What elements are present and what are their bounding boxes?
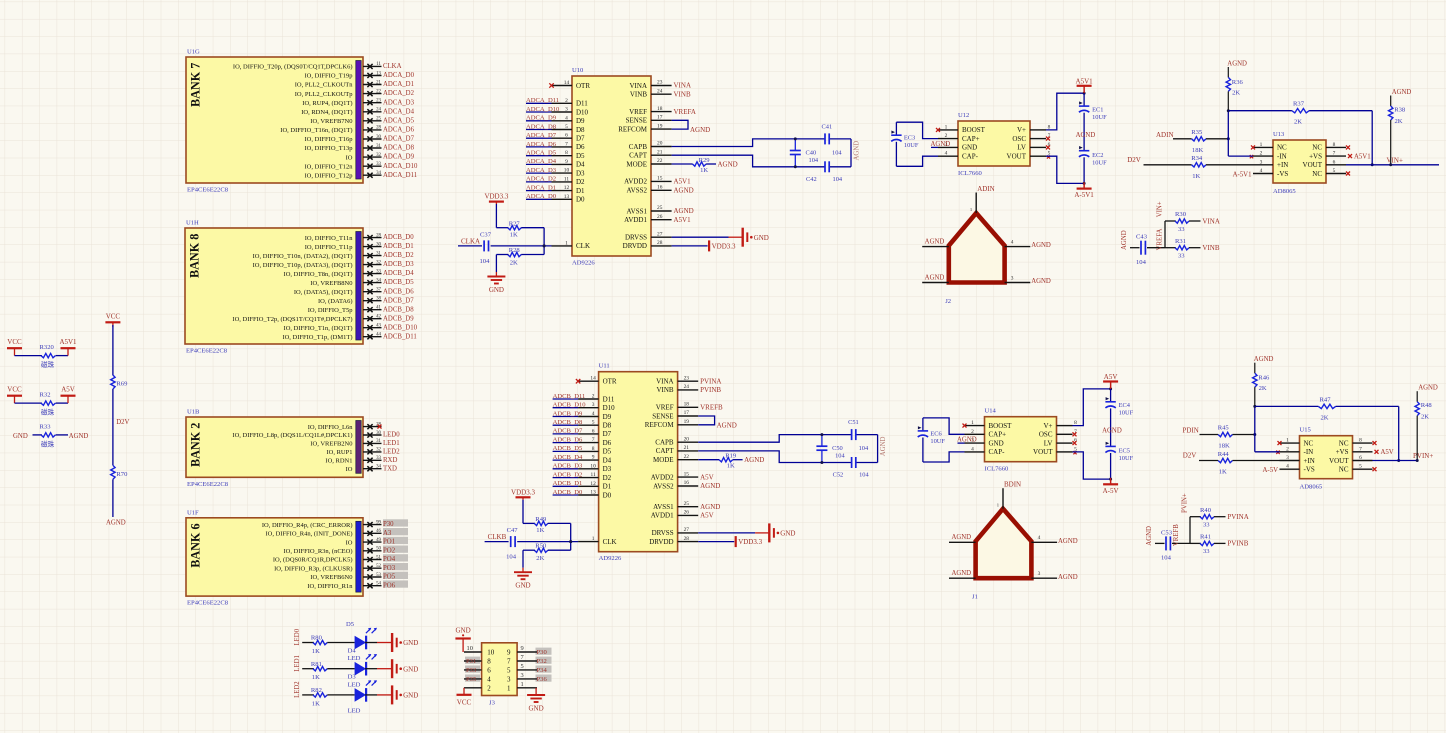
junction output node — [1397, 459, 1400, 462]
svg-text:6: 6 — [1359, 455, 1362, 461]
resistor R31 33 — [1175, 246, 1189, 250]
svg-text:R49: R49 — [535, 516, 547, 523]
svg-text:13: 13 — [564, 194, 570, 200]
svg-text:IO, DIFFIO_T20p, (DQS0T/CQ1T,D: IO, DIFFIO_T20p, (DQS0T/CQ1T,DPCLK6) — [233, 64, 353, 71]
svg-text:P30: P30 — [537, 649, 548, 656]
svg-text:SENSE: SENSE — [652, 412, 673, 420]
svg-text:ADCB_D5: ADCB_D5 — [553, 445, 583, 452]
svg-text:38: 38 — [376, 297, 381, 302]
wire inverting node vertical — [1227, 111, 1229, 156]
svg-text:D9: D9 — [603, 413, 612, 421]
svg-text:P33: P33 — [466, 667, 477, 674]
svg-text:VDD3.3: VDD3.3 — [484, 193, 508, 201]
svg-text:ADCA_D7: ADCA_D7 — [383, 136, 415, 143]
svg-text:13: 13 — [376, 71, 381, 76]
svg-text:ADCB_D2: ADCB_D2 — [383, 252, 414, 259]
svg-text:R29: R29 — [699, 157, 711, 164]
svg-text:1K: 1K — [700, 167, 708, 174]
svg-text:33: 33 — [1178, 253, 1185, 260]
wire bead row right — [56, 402, 68, 404]
svg-text:C51: C51 — [848, 419, 859, 426]
svg-text:ICL7660: ICL7660 — [985, 466, 1010, 473]
wire to R40 — [1190, 516, 1201, 518]
svg-text:CAP+: CAP+ — [962, 135, 980, 143]
svg-text:R320: R320 — [40, 344, 55, 351]
svg-text:33: 33 — [1203, 522, 1210, 529]
wire bead row — [15, 402, 43, 404]
resistor R19 1K on MODE — [719, 458, 733, 462]
svg-text:EP4CE6E22C8: EP4CE6E22C8 — [187, 600, 229, 607]
svg-text:1: 1 — [1260, 142, 1263, 148]
svg-text:1: 1 — [565, 240, 568, 246]
wire net ADCB_D0 — [553, 494, 579, 496]
svg-text:R40: R40 — [1200, 507, 1212, 514]
wire net ADCA_D7 — [526, 137, 552, 139]
svg-text:28: 28 — [376, 233, 381, 238]
svg-text:4: 4 — [1260, 168, 1263, 174]
svg-text:ADCB_D2: ADCB_D2 — [553, 471, 583, 478]
wire to R41 — [1190, 542, 1201, 544]
resistor R80 1K — [313, 640, 327, 644]
wire pulldown to CLK node — [521, 254, 544, 256]
svg-text:OSC: OSC — [1039, 431, 1053, 439]
svg-text:U1G: U1G — [187, 49, 200, 56]
svg-text:+IN: +IN — [1277, 161, 1288, 169]
FPGA bank block BANK 2 (U1B) — [186, 417, 363, 477]
ferrite bead R320 — [41, 353, 55, 357]
svg-text:8: 8 — [487, 658, 491, 666]
svg-text:104: 104 — [859, 445, 869, 452]
svg-text:5: 5 — [521, 663, 524, 670]
wire positive rail to EC caps — [1110, 382, 1112, 389]
svg-text:ADCA_D6: ADCA_D6 — [526, 141, 557, 148]
svg-text:ADCB_D1: ADCB_D1 — [553, 480, 583, 487]
svg-text:-IN: -IN — [1304, 448, 1314, 456]
svg-text:AVDD2: AVDD2 — [624, 178, 647, 186]
svg-text:D2: D2 — [603, 474, 612, 482]
svg-text:5: 5 — [1333, 168, 1336, 174]
svg-text:104: 104 — [859, 472, 869, 479]
wire ADIN input — [1173, 138, 1192, 140]
svg-text:ADCB_D6: ADCB_D6 — [553, 436, 583, 443]
wire feedback left — [1228, 110, 1292, 112]
svg-text:2: 2 — [1260, 151, 1263, 157]
svg-text:ADCB_D4: ADCB_D4 — [553, 454, 583, 461]
svg-text:AGND: AGND — [925, 238, 945, 245]
net label P32 — [536, 657, 552, 664]
J1 left pin 5 — [949, 577, 976, 579]
svg-text:2K: 2K — [510, 259, 518, 266]
svg-text:6: 6 — [592, 428, 595, 434]
svg-text:4: 4 — [1011, 239, 1014, 245]
svg-text:ADCA_D11: ADCA_D11 — [526, 97, 559, 104]
svg-text:EC6: EC6 — [930, 430, 941, 437]
power ground at LED D3 — [391, 685, 393, 704]
resistor R48 2K output divider — [1415, 402, 1419, 416]
svg-text:IO, PLL2_CLKOUTn: IO, PLL2_CLKOUTn — [295, 82, 354, 89]
svg-text:AGND: AGND — [1102, 428, 1122, 435]
wire AGND to output divider resistor — [1416, 391, 1418, 402]
wire clock input — [485, 541, 509, 543]
svg-text:IO, DIFFIO_T19p: IO, DIFFIO_T19p — [304, 73, 352, 80]
svg-text:R34: R34 — [1191, 155, 1203, 162]
svg-text:25: 25 — [657, 205, 663, 211]
wire AGND to R36 — [1227, 67, 1229, 77]
no-ERC marker BOOST — [963, 424, 967, 428]
svg-text:P31: P31 — [466, 658, 476, 665]
polarized capacitor EC6 10UF flying — [922, 418, 924, 431]
FPGA bank block BANK 6 (U1F) — [186, 518, 363, 596]
svg-text:AGND: AGND — [880, 436, 887, 456]
wire pulldown to CLK node — [548, 549, 571, 551]
svg-text:8: 8 — [565, 150, 568, 156]
svg-text:9: 9 — [521, 645, 524, 652]
svg-text:D6: D6 — [603, 439, 612, 447]
svg-text:1: 1 — [971, 420, 974, 426]
svg-text:LED0: LED0 — [294, 628, 301, 645]
FPGA bank block BANK 8 (U1H) — [185, 228, 363, 344]
svg-text:R48: R48 — [1421, 402, 1433, 409]
svg-text:28: 28 — [657, 240, 663, 246]
no-ERC marker OSC — [1046, 137, 1050, 141]
svg-text:3: 3 — [1011, 275, 1014, 281]
wire between EC caps — [1083, 113, 1085, 151]
svg-text:GND: GND — [13, 433, 28, 440]
svg-text:CAPB: CAPB — [629, 143, 648, 151]
svg-text:GND: GND — [780, 530, 795, 538]
svg-text:C50: C50 — [832, 445, 843, 452]
svg-text:3: 3 — [521, 672, 524, 679]
svg-text:D1: D1 — [603, 483, 612, 491]
svg-text:4: 4 — [1286, 464, 1289, 470]
svg-text:U12: U12 — [958, 112, 969, 119]
polarized capacitor EC5 10UF negative — [1105, 445, 1115, 447]
svg-text:EP4CE6E22C8: EP4CE6E22C8 — [187, 481, 229, 488]
svg-text:R46: R46 — [1258, 375, 1270, 382]
svg-text:19: 19 — [684, 419, 690, 425]
svg-text:10UF: 10UF — [1119, 410, 1134, 417]
svg-text:53: 53 — [376, 573, 381, 578]
wire net ADCA_D11 — [526, 102, 552, 104]
svg-text:LED0: LED0 — [383, 432, 400, 439]
svg-text:13: 13 — [590, 490, 596, 496]
svg-text:54: 54 — [376, 582, 381, 587]
svg-text:OTR: OTR — [603, 378, 617, 386]
svg-text:ADCB_D11: ADCB_D11 — [383, 333, 417, 340]
svg-text:31: 31 — [376, 144, 381, 149]
power port A-5V1 negative — [1083, 183, 1085, 188]
svg-text:30: 30 — [376, 242, 381, 247]
svg-text:LED1: LED1 — [294, 655, 301, 672]
net label P34 — [536, 666, 552, 673]
svg-text:42: 42 — [376, 315, 381, 320]
resistor R41 33 — [1200, 541, 1214, 545]
svg-text:V+: V+ — [1017, 126, 1026, 134]
wire VOUT to negative rail — [1046, 156, 1084, 183]
svg-text:1: 1 — [521, 681, 524, 688]
svg-text:4: 4 — [1038, 535, 1041, 541]
svg-text:1: 1 — [945, 124, 948, 130]
J2 top pin 1 — [975, 193, 977, 214]
wire LED to ground — [365, 642, 377, 644]
svg-text:104: 104 — [835, 453, 845, 460]
svg-text:D11: D11 — [576, 100, 588, 108]
no-ERC marker pin2 — [1276, 451, 1279, 454]
power port A5V1 positive — [1077, 85, 1092, 87]
svg-text:AGND: AGND — [1121, 230, 1128, 250]
wire feedback right — [1336, 405, 1399, 407]
wire CAPT to cap network — [698, 451, 822, 463]
net label P33 — [465, 666, 480, 673]
wire MODE resistor to AGND label — [706, 163, 716, 165]
svg-text:4: 4 — [487, 676, 491, 684]
bank BANK 6 pin bar — [356, 521, 361, 592]
svg-text:U1B: U1B — [187, 409, 200, 416]
wire feedback left — [1255, 405, 1319, 407]
svg-text:10: 10 — [590, 463, 596, 469]
polarized capacitor EC4 10UF positive — [1105, 401, 1115, 403]
resistor R50 2K pulldown — [534, 548, 548, 552]
svg-text:BOOST: BOOST — [962, 126, 986, 134]
resistor R47 2K feedback — [1318, 404, 1335, 408]
J2 right pin 3 — [1005, 282, 1031, 284]
svg-text:28: 28 — [376, 126, 381, 131]
svg-text:1K: 1K — [312, 674, 320, 681]
power port VCC at J3 — [457, 694, 472, 696]
svg-text:VOUT: VOUT — [1033, 448, 1053, 456]
svg-text:ADCA_D3: ADCA_D3 — [526, 167, 557, 174]
junction negative rail — [1109, 478, 1112, 481]
svg-text:GND: GND — [403, 692, 418, 700]
svg-text:22: 22 — [684, 454, 690, 460]
svg-text:C52: C52 — [833, 472, 844, 479]
svg-text:D0: D0 — [576, 196, 585, 204]
resistor R46 2K to ground — [1253, 373, 1257, 387]
svg-text:R50: R50 — [535, 543, 547, 550]
svg-text:A-5V1: A-5V1 — [1233, 172, 1252, 179]
wire net ADCA_D4 — [526, 163, 552, 165]
svg-text:27: 27 — [657, 231, 663, 237]
svg-text:R35: R35 — [1191, 129, 1203, 136]
svg-text:2: 2 — [971, 429, 974, 435]
wire bead row right — [56, 355, 68, 357]
svg-text:VREF: VREF — [656, 404, 674, 412]
capacitor C37 104 series clock — [483, 240, 485, 251]
wire VOUT to VIN+ — [1346, 164, 1439, 166]
svg-text:EC5: EC5 — [1119, 448, 1130, 455]
svg-text:ADCB_D4: ADCB_D4 — [383, 270, 414, 277]
svg-text:IO, DIFFIO_L8p, (DQS1L/CQ1L#,D: IO, DIFFIO_L8p, (DQS1L/CQ1L#,DPCLK1) — [232, 432, 352, 439]
svg-text:51: 51 — [376, 555, 381, 560]
wire D2V — [1144, 164, 1192, 166]
svg-text:NC: NC — [1312, 170, 1322, 178]
wire net ADCB_D11 — [553, 398, 579, 400]
wire net ADCB_D8 — [553, 424, 579, 426]
svg-text:18: 18 — [684, 402, 690, 408]
svg-text:AGND: AGND — [1058, 574, 1078, 581]
wire PDIN input — [1200, 434, 1219, 436]
svg-text:BDIN: BDIN — [1004, 481, 1021, 489]
svg-text:3: 3 — [1038, 571, 1041, 577]
svg-text:CLKB: CLKB — [488, 533, 507, 541]
svg-text:24: 24 — [376, 108, 381, 113]
svg-text:U1H: U1H — [186, 220, 199, 227]
svg-text:AGND: AGND — [744, 456, 764, 464]
wire net ADCA_D6 — [526, 146, 552, 148]
wire LED to ground — [365, 668, 377, 670]
svg-text:C41: C41 — [822, 124, 833, 131]
svg-text:ADCB_D8: ADCB_D8 — [383, 306, 414, 313]
svg-text:-VS: -VS — [1304, 466, 1315, 474]
svg-text:32: 32 — [376, 260, 381, 265]
wire CAP- loop — [896, 156, 938, 166]
svg-text:10UF: 10UF — [930, 438, 945, 445]
junction negative rail — [1083, 182, 1086, 185]
svg-text:C37: C37 — [480, 231, 492, 238]
capacitor C43 104 — [1140, 241, 1142, 255]
svg-text:A-5V1: A-5V1 — [1074, 191, 1094, 199]
no-ERC marker pin5 — [1373, 467, 1377, 471]
svg-text:GND: GND — [403, 639, 418, 647]
svg-text:ADCB_D10: ADCB_D10 — [553, 402, 587, 409]
svg-text:AGND: AGND — [854, 141, 861, 161]
svg-text:LED: LED — [348, 655, 361, 662]
svg-text:1K: 1K — [536, 527, 544, 534]
J2 right pin 4 — [1005, 246, 1031, 248]
svg-text:CLKA: CLKA — [383, 63, 402, 70]
svg-text:IO, DIFFIO_T8n, (DQ1T): IO, DIFFIO_T8n, (DQ1T) — [284, 271, 353, 278]
svg-text:ADCA_D8: ADCA_D8 — [383, 145, 415, 152]
svg-text:30: 30 — [376, 431, 381, 436]
svg-text:VREFB: VREFB — [1173, 524, 1180, 546]
svg-text:ADCB_D0: ADCB_D0 — [553, 489, 583, 496]
wire cap network bottom rail — [822, 462, 852, 464]
wire R41 to PVINB — [1214, 542, 1226, 544]
svg-text:AD8065: AD8065 — [1273, 188, 1296, 195]
wire cap network bottom rail — [795, 166, 825, 168]
svg-text:AGND: AGND — [690, 126, 710, 134]
wire pullup to CLK node — [548, 522, 571, 524]
polarized capacitor EC3 10UF flying — [895, 122, 897, 135]
wire clock cap to CLK pin — [517, 541, 578, 543]
svg-text:NC: NC — [1304, 439, 1314, 447]
svg-text:A5V: A5V — [1104, 373, 1118, 381]
wire LED1 to resistor — [302, 668, 314, 670]
no-ERC marker pin5 — [1346, 172, 1350, 176]
svg-text:A5V1: A5V1 — [674, 216, 692, 224]
svg-text:PO2: PO2 — [383, 547, 396, 554]
wire LED0 to resistor — [302, 642, 314, 644]
wire net ADCB_D5 — [553, 450, 579, 452]
svg-text:2K: 2K — [1421, 414, 1429, 421]
svg-text:3: 3 — [507, 676, 511, 684]
junction clock wire — [543, 244, 546, 247]
no-ERC marker pin8 — [1373, 441, 1377, 445]
junction clock wire — [569, 540, 572, 543]
resistor R29 1K on MODE — [693, 162, 707, 166]
svg-text:8: 8 — [1359, 438, 1362, 444]
svg-text:D10: D10 — [576, 108, 589, 116]
junction inverting node — [1227, 137, 1230, 140]
wire pullup to CLK node — [521, 227, 544, 229]
svg-text:14: 14 — [590, 376, 596, 382]
svg-text:RXD: RXD — [383, 457, 397, 464]
svg-text:ADCB_D5: ADCB_D5 — [383, 279, 414, 286]
wire net ADCB_D2 — [553, 477, 579, 479]
svg-text:AGND: AGND — [1031, 278, 1051, 285]
svg-text:P35: P35 — [466, 676, 477, 683]
svg-text:LED: LED — [348, 681, 361, 688]
svg-text:1K: 1K — [312, 648, 320, 655]
svg-text:23: 23 — [376, 99, 381, 104]
svg-text:46: 46 — [376, 529, 381, 534]
svg-text:ADIN: ADIN — [977, 185, 995, 193]
svg-text:VINA: VINA — [656, 378, 674, 386]
wire R46 to feedback node — [1254, 387, 1256, 406]
no-ERC marker VOUT — [1073, 451, 1076, 454]
wire R70 to AGND — [112, 479, 114, 517]
no-ERC marker LV — [1046, 145, 1050, 149]
svg-text:GND: GND — [489, 286, 504, 294]
svg-text:U10: U10 — [572, 67, 584, 74]
polarized capacitor EC1 10UF positive — [1079, 105, 1089, 107]
wire input resistor to inverting node — [1206, 138, 1228, 140]
svg-text:IO: IO — [346, 466, 353, 473]
svg-text:1: 1 — [507, 684, 511, 692]
wire DRVDD to VDD3.3 — [672, 245, 708, 247]
svg-text:3: 3 — [592, 402, 595, 408]
svg-text:27: 27 — [684, 527, 690, 533]
svg-text:IO, RDN1: IO, RDN1 — [325, 458, 352, 465]
no-ERC marker pin1 — [1278, 441, 1282, 445]
connector J1 shell — [976, 509, 1032, 579]
svg-text:7: 7 — [565, 141, 568, 147]
svg-text:1: 1 — [592, 536, 595, 542]
svg-text:VIN+: VIN+ — [1157, 201, 1164, 217]
svg-text:5: 5 — [592, 420, 595, 426]
svg-text:26: 26 — [657, 214, 663, 220]
svg-text:BANK 8: BANK 8 — [188, 234, 202, 278]
svg-text:C42: C42 — [806, 176, 817, 183]
svg-text:AVSS2: AVSS2 — [653, 482, 674, 490]
svg-text:IO, DIFFIO_R4p, (CRC_ERROR): IO, DIFFIO_R4p, (CRC_ERROR) — [262, 522, 353, 529]
svg-text:24: 24 — [684, 384, 690, 390]
wire +IN — [1233, 460, 1280, 462]
svg-text:V+: V+ — [1043, 422, 1052, 430]
resistor R37 2K feedback — [1292, 109, 1309, 113]
svg-text:2: 2 — [945, 133, 948, 139]
wire negative rail — [1083, 157, 1085, 183]
svg-text:R19: R19 — [725, 453, 737, 460]
wire clock cap to CLK pin — [491, 245, 552, 247]
J2 left pin 2 — [922, 246, 949, 248]
svg-text:16: 16 — [684, 480, 690, 486]
svg-text:+VS: +VS — [1336, 448, 1349, 456]
svg-text:D5: D5 — [603, 448, 612, 456]
svg-text:IO, DIFFIO_R4n, (INIT_DONE): IO, DIFFIO_R4n, (INIT_DONE) — [265, 531, 352, 538]
svg-text:ADCB_D1: ADCB_D1 — [383, 243, 414, 250]
wire D2V — [1199, 460, 1218, 462]
svg-text:IO: IO — [346, 154, 353, 161]
svg-text:AVDD1: AVDD1 — [651, 512, 674, 520]
svg-text:D2: D2 — [576, 178, 585, 186]
svg-text:ADCA_D1: ADCA_D1 — [526, 184, 556, 191]
junction CLK node — [569, 540, 572, 543]
bank BANK 8 pin bar — [356, 232, 361, 341]
svg-text:23: 23 — [684, 375, 690, 381]
svg-text:AGND: AGND — [700, 482, 720, 490]
net label P31 — [465, 657, 480, 664]
